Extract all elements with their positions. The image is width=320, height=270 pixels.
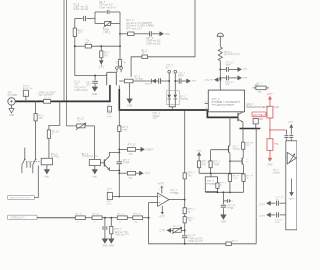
op-amp triangle U20 [287, 152, 296, 164]
wire CT1 down [168, 73, 170, 94]
junction col119 t1a [118, 151, 120, 153]
wire capcol stubr [223, 200, 227, 202]
connector arrow power row2 [238, 76, 248, 80]
svg-text:??-C?+???: ??-C?+??? [74, 87, 86, 89]
capacitor C33 [275, 212, 283, 224]
net label NAV SELECT red box [252, 112, 267, 117]
junction bus SplitMic [25, 100, 27, 102]
wire diode merge [169, 105, 175, 107]
wire GND stub Rry [129, 83, 131, 99]
wire SW1 to net label [34, 166, 38, 198]
svg-text:C???: C??? [178, 76, 184, 78]
wire col119 c [118, 164, 120, 196]
wire node right vertical 2 [119, 34, 121, 46]
svg-text:C???: C??? [99, 68, 105, 70]
wire parallel box right edge [119, 12, 121, 24]
wire TP2 stub [255, 124, 257, 129]
wire R73 up [216, 177, 218, 183]
ground C20 [102, 239, 107, 248]
capacitor C15 row2 [226, 76, 235, 87]
svg-text:R?_??: R?_?? [246, 175, 253, 177]
wire C20 stub [104, 218, 106, 227]
wire TP3 stub [112, 196, 119, 198]
op-amp U10 [158, 189, 179, 206]
wire hop loop [107, 72, 117, 85]
wire T1 collector [109, 152, 119, 156]
svg-text:R?_1: R?_1 [39, 115, 45, 117]
wire diode to bus [171, 107, 173, 110]
wire vertical net B [67, 0, 77, 126]
svg-text:C?PS/C?a ??: C?PS/C?a ?? [10, 218, 25, 220]
wire B1 gnd stub [94, 166, 96, 170]
component box X1 [205, 177, 219, 192]
transistor Q0 output [238, 112, 243, 122]
svg-text:?A? - D?????: ?A? - D????? [39, 94, 54, 97]
junction CT2 [174, 80, 176, 82]
junction bottom rail [94, 75, 96, 77]
wire colQ2 top [242, 129, 244, 143]
wire BNC gnd stub [11, 105, 13, 109]
wire row149 [119, 148, 127, 150]
svg-text:?e??(1): ?e??(1) [51, 156, 59, 158]
wire box bottom edge [95, 23, 104, 25]
op-amp U1 main IC [208, 90, 244, 112]
wire C20 stub b [104, 230, 106, 239]
pin CT circle 1 [168, 70, 171, 73]
wire input net b [85, 217, 92, 219]
wire rail mid [199, 172, 243, 174]
switch SW1 pole 2 [30, 158, 36, 173]
transistor Q1 [229, 145, 241, 153]
svg-text:C?R2 -ver ?0.8?: C?R2 -ver ?0.8? [39, 92, 57, 95]
wire B1 top [94, 126, 96, 159]
wire CT branch right [175, 80, 178, 82]
svg-text:?2V?W: ?2V?W [180, 99, 188, 101]
svg-text:7: 7 [159, 190, 160, 192]
opto-isolator U20 box [286, 141, 297, 230]
wire rail2 [205, 191, 243, 193]
wire box bottom edge b [111, 23, 120, 25]
wire power stem b [219, 61, 221, 80]
wire capcol [222, 192, 224, 204]
svg-text:R?_?: R?_? [232, 241, 238, 243]
pin stub U1 lower [205, 108, 209, 110]
svg-text:??2?: ??2? [226, 65, 232, 67]
resistor R7_7 [100, 51, 111, 58]
label C10 values [146, 37, 161, 45]
junction col119 bus [118, 109, 120, 111]
svg-text:R?? -ver 1.3.7: R?? -ver 1.3.7 [126, 27, 142, 30]
junction ladder trim [184, 229, 186, 231]
node junction row2 [119, 33, 121, 35]
wire R64 column b [35, 121, 37, 159]
connector arrow row149 [141, 147, 154, 151]
label CR2 note [39, 92, 57, 100]
resistor R9 inline [115, 60, 126, 67]
svg-text:???: ??? [153, 118, 158, 121]
wire B2 gnd stub [46, 165, 48, 169]
wire colQ1 bottom [229, 181, 231, 192]
svg-text:C?pF ver 2/2: C?pF ver 2/2 [146, 42, 161, 45]
wire Q0 emitter [242, 122, 244, 129]
junction rail mid b [229, 172, 231, 174]
svg-text:R??_??: R??_?? [133, 214, 141, 216]
svg-text:???: ??? [243, 69, 248, 72]
junction ladder bus [184, 109, 186, 111]
wire sense row mid3 [161, 80, 169, 82]
junction power row1 [219, 68, 221, 70]
wire CT branch right b [182, 80, 187, 82]
wire row126 outer [85, 125, 95, 127]
junction colQ1 thick [229, 116, 231, 118]
transistor Q5 [104, 156, 109, 170]
resistor R15 spare [253, 83, 269, 94]
resistor R64 [34, 114, 45, 121]
svg-text:R?_??: R?_?? [233, 175, 240, 177]
junction rail2 b [222, 191, 224, 193]
pin CT circle 2 [174, 70, 177, 73]
junction power row2 [219, 77, 221, 79]
wire colQ2 mid [242, 149, 244, 157]
svg-text:R?_1?: R?_1? [76, 214, 83, 216]
svg-text:C?pF ver?4.1: C?pF ver?4.1 [74, 89, 89, 92]
wire box top left [95, 11, 106, 13]
wire red branch right [270, 129, 286, 131]
resistor R75 [242, 142, 254, 149]
svg-text:GND: GND [102, 245, 107, 247]
resistor R7_2 row3 [85, 40, 91, 48]
svg-text:??F: ??F [226, 85, 231, 87]
label C6 small [74, 82, 80, 87]
resistor R41 [183, 173, 195, 179]
resistor R76 [242, 174, 254, 182]
svg-text:R??_?: R??_? [188, 209, 195, 211]
wire ladder mid b [184, 214, 186, 217]
wire input net c [102, 217, 117, 219]
resistor R43 [183, 217, 195, 223]
svg-text:GND: GND [92, 94, 97, 96]
svg-text:??k: ??k [274, 142, 279, 146]
junction bus R64 [35, 100, 37, 102]
wire pinB b [280, 214, 286, 216]
wire SplitMic stub [25, 96, 27, 101]
svg-text:B1?_1: B1?_1 [82, 154, 89, 156]
wire pin B stub [120, 69, 122, 72]
junction Q2 base [229, 160, 231, 162]
capacitor C12 [159, 78, 161, 83]
wire +V stem b [290, 139, 292, 141]
capacitor C30 [289, 136, 293, 138]
annotation R10 note [126, 19, 153, 30]
testpoint TP3 box [107, 189, 113, 207]
net label CMPS box [8, 215, 37, 219]
wire R7 column [100, 46, 102, 51]
resistor R35 [133, 214, 143, 224]
svg-text:R??_??: R??_?? [173, 226, 181, 228]
svg-text:???: ??? [192, 80, 197, 83]
wire Q0 collector [242, 111, 244, 113]
wire opamp plus riser [148, 203, 150, 218]
connector arrow trim [160, 228, 171, 232]
svg-text:R??_1?: R??_1? [128, 144, 137, 146]
wire trim branch [181, 229, 185, 231]
wire T1 emitter [109, 167, 119, 170]
trimmer R62 [76, 118, 86, 129]
svg-text:R??_?: R??_? [214, 162, 221, 164]
junction opamp output [184, 199, 186, 201]
wire IC top stub [219, 80, 221, 90]
svg-text:??kΩ ver ???: ??kΩ ver ??? [115, 234, 130, 237]
svg-text:( R8_): ( R8_) [103, 31, 110, 34]
ground B1 [92, 169, 98, 178]
trimmer R8 on box bottom [103, 21, 111, 34]
wire ladder top [184, 110, 186, 173]
label C22 values [188, 235, 203, 244]
testpoint TP1 box [107, 105, 113, 119]
junction row3 left [74, 45, 76, 47]
connector arrow pinA [266, 201, 270, 205]
wire red-to-box stem [285, 130, 287, 135]
resistor R61 [47, 130, 59, 138]
junction input res [110, 217, 112, 219]
wire row2 b [134, 33, 149, 35]
resistor R52 [127, 144, 136, 156]
wire thick riser B [118, 89, 120, 111]
capacitor C8 on box top [107, 10, 109, 14]
wire col210 down [210, 168, 212, 174]
wire cap C9 stub [94, 76, 96, 81]
wire sense row mid [133, 80, 152, 82]
resistor R53 [127, 171, 135, 179]
wire R64 column [35, 101, 37, 113]
junction input cap [104, 217, 106, 219]
junction minus corner [119, 196, 121, 198]
svg-text:????: ???? [233, 178, 239, 180]
svg-text:R??_?: R??_? [188, 173, 195, 175]
label Q19 navigation [246, 104, 270, 110]
label C9 [86, 82, 92, 87]
wire pin A stub [116, 69, 118, 72]
svg-text:R?_9: R?_9 [122, 127, 128, 129]
wire capcol b [222, 208, 224, 215]
label R33 values [115, 228, 130, 237]
junction col119 row2 [118, 172, 120, 174]
wire box top right [110, 11, 120, 13]
resistor R21 red 2.2k [267, 105, 280, 118]
ground below Rry [127, 99, 132, 108]
svg-text:R?_1?: R?_1? [92, 214, 99, 216]
svg-text:+???: +??? [288, 122, 294, 124]
wire node right vertical 3 [119, 46, 121, 59]
ground red [267, 158, 272, 167]
wire col119 a [118, 110, 120, 126]
wire bottom net b [231, 243, 256, 245]
wire cap C9 stub b [94, 84, 96, 86]
wire row125 inner b [48, 138, 50, 158]
wire U20 inner stem [291, 179, 293, 193]
label U20 [273, 169, 280, 175]
capacitor C23 inline [117, 160, 131, 165]
wire red stem 2 [269, 118, 271, 139]
resistor R63 bus inline [44, 100, 51, 104]
wire Q5 base [100, 162, 104, 164]
wire colQ1 top [229, 117, 231, 145]
wire row3 b [91, 45, 120, 47]
net label box SplitMic [23, 86, 33, 97]
svg-text:D?_?: D?_? [180, 96, 186, 98]
capacitor C20 [99, 227, 108, 230]
ground earth B2 [44, 169, 50, 178]
svg-text:???pF: ???pF [227, 208, 234, 210]
wire input net d [127, 217, 133, 219]
wire row173 [119, 172, 127, 174]
wire row2 c [152, 33, 160, 35]
wire col210 up [210, 150, 212, 161]
connector arrow left power [205, 78, 218, 82]
svg-text:NAV?SEL??: NAV?SEL?? [253, 114, 267, 117]
junction power top [219, 79, 221, 81]
label bus note 2 [74, 87, 89, 92]
svg-text:-V???: -V??? [159, 216, 166, 218]
wire row149 b [136, 148, 141, 150]
svg-text:C?+???: C?+??? [205, 79, 214, 82]
ground below C9 [92, 87, 98, 96]
wire row173 b [136, 172, 140, 174]
pin circle A [116, 67, 119, 70]
svg-text:DAC: DAC [165, 33, 170, 36]
svg-text:C???: C??? [160, 230, 167, 233]
ground C26 [221, 215, 226, 224]
svg-text:1??: 1?? [78, 32, 83, 35]
wire node left vertical [74, 19, 76, 76]
svg-text:C??_?: C??_? [123, 160, 130, 162]
connector arrow right CT [187, 79, 197, 83]
wire cap row [75, 18, 83, 20]
diode D5 left [151, 79, 156, 83]
label C13 [178, 74, 185, 79]
wire pinB [270, 214, 275, 216]
node junction row3 [119, 45, 121, 47]
switch SW1 gang dashes [26, 160, 41, 162]
svg-text:C???: C??? [260, 204, 266, 206]
wire power stem [219, 36, 221, 47]
svg-text:R?_14: R?_14 [52, 131, 59, 133]
label C91 bulk cap [153, 112, 161, 121]
svg-text:GND: GND [44, 177, 49, 179]
pin circle B [120, 67, 123, 70]
svg-text:C?_??: C?_?? [246, 143, 253, 145]
wire R33 stub [110, 218, 112, 227]
resistor R74 [228, 174, 240, 182]
wire colQ2 low [243, 165, 245, 174]
resistor R11 zigzag [218, 47, 241, 61]
svg-text:????: ???? [122, 130, 128, 132]
svg-text:GND: GND [92, 177, 97, 179]
capacitor C9 [92, 81, 97, 83]
wire opamp output [169, 199, 185, 201]
wire Q2 base [230, 160, 242, 162]
junction sense CT [168, 80, 170, 82]
wire pinA [270, 202, 275, 204]
wire row125 inner [49, 101, 60, 129]
wire power row1 [220, 68, 226, 70]
capacitor C25 small [228, 199, 235, 203]
wire colQ2 bottom [243, 181, 245, 192]
connector arrow pinB [266, 213, 270, 217]
svg-text:??0R: ??0R [214, 164, 220, 166]
svg-text:NAVIGATION SEL???: NAVIGATION SEL??? [246, 106, 270, 109]
resistor R22 red [267, 139, 279, 151]
diode D6a [167, 95, 171, 105]
resistor R33 [110, 226, 113, 233]
wire input net a [37, 217, 75, 219]
connector J10 BNC [8, 92, 18, 105]
wire main bus B [119, 110, 237, 117]
wire main bus A [15, 100, 110, 102]
svg-text:R?_1?: R?_1? [118, 214, 125, 216]
wire box T stub [210, 173, 212, 177]
wire R73 down [216, 188, 218, 192]
wire mid row [131, 57, 142, 77]
wire vertical net A [63, 0, 65, 101]
wire node right vertical [119, 24, 121, 34]
capacitor C14 row1 [226, 62, 235, 72]
power arrow red +V [268, 96, 272, 100]
wire R33 stub b [110, 234, 112, 239]
power -V opamp [159, 206, 166, 219]
junction col119 t1b [118, 169, 120, 171]
svg-text:C9_1: C9_1 [86, 82, 92, 84]
power +V opamp [157, 183, 164, 193]
svg-text:C3pF -ver 1/2: C3pF -ver 1/2 [74, 8, 89, 11]
pin stub U1 upper [205, 102, 209, 104]
wire gnd col stub b [198, 168, 200, 174]
resistor R4_5 [141, 49, 147, 58]
wire opamp plus stub [149, 202, 158, 204]
wire R7 column b [100, 58, 102, 61]
svg-text:C?pF ver 1?3: C?pF ver 1?3 [188, 240, 203, 243]
svg-text:GND: GND [127, 105, 132, 107]
wire red-to-box stem b [285, 139, 287, 141]
svg-text:P???: P??? [107, 116, 113, 118]
resistor R32 [92, 214, 102, 224]
svg-text:Q?_?: Q?_? [233, 147, 239, 149]
wire pinA b [280, 202, 286, 204]
wire gnd col stub [198, 156, 200, 161]
wire net bottom rail [75, 75, 107, 77]
svg-text:??????: ?????? [233, 149, 241, 151]
svg-text:GND: GND [197, 150, 202, 152]
resistor Rry [124, 75, 144, 82]
svg-text:2.2k: 2.2k [274, 105, 280, 109]
svg-text:????: ???? [145, 172, 151, 175]
capacitor C22 ladder [182, 236, 187, 238]
junction output a [242, 128, 244, 130]
wire mid row b [148, 0, 196, 57]
wire col119 b [118, 131, 120, 161]
sensor box B1 [82, 154, 101, 166]
diode D6b [174, 95, 178, 105]
svg-text:N?/C?? S????? C??: N?/C?? S????? C?? [10, 198, 31, 200]
ground BNC [9, 109, 14, 118]
connector arrow row173 [140, 171, 151, 175]
capacitor C13 [179, 78, 181, 83]
wire SW1 pole1 stub [24, 148, 26, 160]
ground R33 [109, 239, 114, 248]
junction bus diode [171, 109, 173, 111]
resistor R31 [75, 214, 85, 224]
wire colQ1 mid [229, 153, 231, 174]
